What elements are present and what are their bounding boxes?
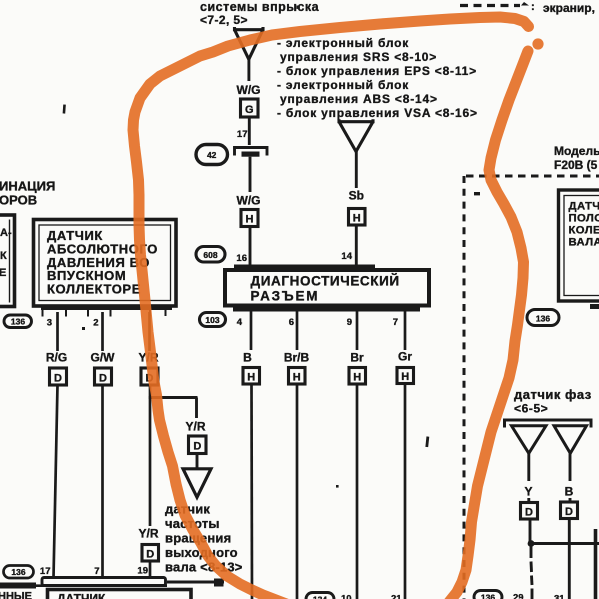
connector box D (branch) xyxy=(189,436,207,454)
svg-text:системы впрыска: системы впрыска xyxy=(200,0,320,14)
wire R/G xyxy=(56,312,59,351)
wire xyxy=(196,454,199,469)
svg-text:H: H xyxy=(353,372,361,384)
node: header text системы впрыска xyxy=(200,0,320,27)
wire xyxy=(568,519,571,599)
connector box D (Y) xyxy=(521,503,538,520)
svg-text:Модель: Модель xyxy=(554,144,599,158)
svg-text:B: B xyxy=(243,351,252,365)
dashed box Model F20B xyxy=(464,176,599,599)
svg-text:134: 134 xyxy=(313,595,327,599)
wire xyxy=(149,561,152,578)
svg-text:КОЛЛЕКТОРЕ: КОЛЛЕКТОРЕ xyxy=(47,282,141,297)
wire xyxy=(250,384,253,599)
connector oval 42 xyxy=(196,145,228,165)
svg-text:42: 42 xyxy=(207,150,217,160)
inline connector symbol xyxy=(235,148,268,157)
wire xyxy=(248,117,251,145)
wire xyxy=(249,157,252,192)
MAP connector stubs xyxy=(43,310,166,317)
svg-text:Gr: Gr xyxy=(398,350,412,364)
connector oval 136 (bottom left) xyxy=(4,566,34,579)
wire Y down (broken scan) xyxy=(531,546,532,599)
wire xyxy=(529,519,532,544)
wire Gr xyxy=(404,312,407,351)
instrument cluster label (cut) xyxy=(0,179,55,208)
orange marker dot xyxy=(532,38,543,49)
wire B phase xyxy=(569,454,572,503)
svg-text:136: 136 xyxy=(536,314,550,324)
svg-text:D: D xyxy=(193,441,201,453)
svg-text:17: 17 xyxy=(237,129,248,140)
wire xyxy=(404,384,407,599)
svg-text:F20B (5: F20B (5 xyxy=(554,158,598,172)
svg-text:датчик фаз: датчик фаз xyxy=(514,387,592,402)
svg-text:РАЗЪЕМ: РАЗЪЕМ xyxy=(251,289,320,304)
svg-text:6: 6 xyxy=(289,317,294,328)
svg-text:103: 103 xyxy=(205,315,219,325)
svg-text:Y/R: Y/R xyxy=(185,420,205,434)
connector oval 136 (crank) xyxy=(527,310,559,326)
connector oval 134 (bottom middle) xyxy=(306,593,334,599)
junction dot xyxy=(528,540,535,547)
orange marker loop: right stroke xyxy=(449,51,528,599)
wire xyxy=(527,454,530,503)
node: датчик фаз label xyxy=(514,387,592,416)
svg-text:17: 17 xyxy=(40,566,51,577)
svg-text:608: 608 xyxy=(203,250,217,260)
svg-text:- электронный блок: - электронный блок xyxy=(277,36,409,50)
svg-text:А-: А- xyxy=(0,227,12,239)
svg-text:Br: Br xyxy=(350,351,364,365)
svg-text:ДАТЧИК: ДАТЧИК xyxy=(57,592,106,599)
connector oval 103 xyxy=(200,313,226,327)
svg-text:- электронный блок: - электронный блок xyxy=(277,78,409,92)
svg-text::: : xyxy=(531,1,535,13)
wire right edge xyxy=(594,529,598,599)
orange marker loop: left+top stroke xyxy=(133,17,529,599)
node: датчик частоты вращения label xyxy=(165,502,243,575)
connector box H (W/G) xyxy=(241,210,258,227)
svg-text:G/W: G/W xyxy=(91,351,116,365)
wire B xyxy=(250,312,253,351)
svg-text:КОЛЕНЧАТОГО: КОЛЕНЧАТОГО xyxy=(569,225,599,237)
svg-text:D: D xyxy=(99,372,107,384)
svg-text:Y: Y xyxy=(524,485,532,499)
svg-text:14: 14 xyxy=(341,251,352,262)
connector box D (G/W) xyxy=(95,368,112,385)
svg-text:H: H xyxy=(401,371,409,383)
wire xyxy=(54,385,58,578)
svg-text:H: H xyxy=(293,372,301,384)
connector box D (Y/R) xyxy=(141,368,158,385)
wire Y/R xyxy=(148,312,151,351)
connector triangle (Sb line) xyxy=(339,119,373,151)
svg-text:D: D xyxy=(146,549,154,561)
bottom bar segment right xyxy=(167,579,224,587)
svg-text:Y/R: Y/R xyxy=(138,527,158,541)
wire xyxy=(296,384,299,599)
wire G/W xyxy=(101,312,104,351)
svg-text:Sb: Sb xyxy=(349,189,364,203)
wire Br xyxy=(356,312,359,351)
svg-text:21: 21 xyxy=(391,594,402,599)
svg-text:W/G: W/G xyxy=(237,194,261,208)
svg-text:ННЫЕ: ННЫЕ xyxy=(0,591,32,599)
svg-text:D: D xyxy=(54,372,62,384)
svg-text:136: 136 xyxy=(11,567,25,577)
wire xyxy=(149,385,152,526)
svg-text:H: H xyxy=(247,372,255,384)
bottom left edge line xyxy=(0,583,167,589)
wire horizontal xyxy=(529,542,599,545)
wire xyxy=(355,151,358,188)
wire junction branch to output shaft sensor xyxy=(149,396,198,399)
svg-text:управления SRS <8-10>: управления SRS <8-10> xyxy=(280,50,437,64)
instrument cluster box (cut at left edge) xyxy=(0,215,15,307)
connector box D (B) xyxy=(561,502,578,519)
diagnostic connector box ДИАГНОСТИЧЕСКИЙ РАЗЪЕМ xyxy=(225,265,429,312)
stray scan marks xyxy=(63,6,480,488)
connector triangle (phase Y) xyxy=(512,426,547,454)
connector oval 136 (left) xyxy=(4,315,32,328)
node: Модель F20B label xyxy=(554,144,599,172)
svg-text:ОРОВ: ОРОВ xyxy=(0,193,37,208)
connector box H (B) xyxy=(243,368,260,385)
svg-text:29: 29 xyxy=(513,593,524,599)
svg-text:D: D xyxy=(565,506,573,518)
wire xyxy=(249,227,252,270)
svg-text:4: 4 xyxy=(237,317,243,328)
svg-text:136: 136 xyxy=(481,593,495,599)
svg-text:G: G xyxy=(245,104,254,116)
MAP sensor box ДАТЧИК АБСОЛЮТНОГО ДАВЛЕНИЯ xyxy=(34,220,177,311)
svg-text:<6-5>: <6-5> xyxy=(514,402,548,416)
svg-text:- блок управления EPS <8-11>: - блок управления EPS <8-11> xyxy=(277,64,477,78)
node: shielded legend dashes xyxy=(460,1,595,15)
bottom ДАТЧИК box xyxy=(48,590,192,599)
svg-text:2: 2 xyxy=(93,318,98,329)
svg-text:B: B xyxy=(565,485,574,499)
connector box H (Sb) xyxy=(349,209,366,226)
svg-text:К: К xyxy=(0,250,7,262)
svg-text:- блок управления VSA <8-16>: - блок управления VSA <8-16> xyxy=(277,106,478,120)
connector triangle (phase B) xyxy=(554,426,587,454)
svg-text:ПОЛОЖЕНИЯ: ПОЛОЖЕНИЯ xyxy=(569,213,599,225)
wire label Y xyxy=(520,481,537,499)
svg-text:ДАТЧИК: ДАТЧИК xyxy=(569,201,599,213)
svg-text:19: 19 xyxy=(137,566,148,577)
svg-text:Br/B: Br/B xyxy=(284,351,310,365)
svg-text:управления ABS <8-14>: управления ABS <8-14> xyxy=(280,92,438,106)
svg-text:экранир,: экранир, xyxy=(543,1,595,15)
crankshaft position sensor box xyxy=(559,190,599,301)
connector box H (Gr) xyxy=(397,368,414,384)
svg-text:7: 7 xyxy=(94,566,99,577)
svg-text:Е: Е xyxy=(0,267,6,279)
svg-text:ИНАЦИЯ: ИНАЦИЯ xyxy=(0,179,55,194)
svg-text:3: 3 xyxy=(47,318,52,329)
wire xyxy=(355,225,358,269)
svg-text:136: 136 xyxy=(11,317,25,327)
svg-text:9: 9 xyxy=(347,317,352,328)
crank sensor stub xyxy=(590,304,599,309)
svg-text:ВАЛА: ВАЛА xyxy=(569,237,599,249)
connector triangle (output shaft sensor) xyxy=(183,469,211,498)
bottom connector bar xyxy=(42,578,166,586)
wire Br/B xyxy=(296,312,299,351)
wire xyxy=(356,384,359,599)
connector oval 136 (bottom right) xyxy=(474,591,502,599)
connector box G xyxy=(241,99,259,117)
svg-text:10: 10 xyxy=(341,594,352,599)
wire xyxy=(101,385,104,578)
connector box H (Br/B) xyxy=(289,368,306,385)
svg-text:ДИАГНОСТИЧЕСКИЙ: ДИАГНОСТИЧЕСКИЙ xyxy=(251,274,400,289)
svg-text:W/G: W/G xyxy=(237,83,261,97)
ECU bullet list xyxy=(277,36,478,120)
connector box H (Br) xyxy=(349,368,366,385)
connector oval 608 xyxy=(196,247,225,263)
phase sensor bracket xyxy=(505,420,592,428)
connector box D (Y/R bottom) xyxy=(142,545,159,562)
svg-text:H: H xyxy=(353,212,361,224)
svg-text:16: 16 xyxy=(236,253,247,264)
wire xyxy=(247,59,250,81)
svg-text:H: H xyxy=(246,214,254,226)
connector triangle (to injection system) xyxy=(235,27,264,59)
svg-text:D: D xyxy=(525,507,533,519)
connector box D (R/G) xyxy=(50,368,67,385)
svg-text:31: 31 xyxy=(554,594,565,599)
svg-text:R/G: R/G xyxy=(46,351,67,365)
svg-text:7: 7 xyxy=(393,317,398,328)
svg-text:<7-2, 5>: <7-2, 5> xyxy=(200,13,248,27)
